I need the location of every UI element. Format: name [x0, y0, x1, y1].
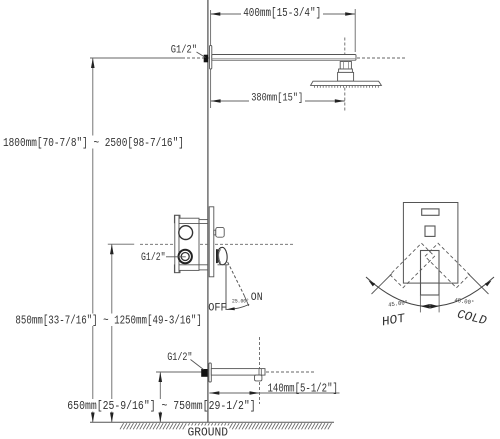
text GROUND: [186, 426, 230, 439]
lever OFF position line: [225, 265, 227, 310]
svg-text:380mm[15"]: 380mm[15"]: [251, 92, 303, 104]
valve bracket: [174, 215, 199, 272]
svg-text:25.00°: 25.00°: [232, 298, 249, 304]
plate slot: [422, 209, 439, 215]
ground line: [90, 421, 334, 423]
valve lower circle inner: [181, 253, 189, 261]
svg-text:GROUND: GROUND: [188, 426, 229, 439]
text 1800mm label: [2, 136, 185, 151]
leader G1/2 top: [197, 52, 206, 58]
svg-text:G1/2": G1/2": [167, 351, 192, 363]
wall line: [207, 0, 209, 422]
angle extension diagonal right: [468, 274, 489, 295]
plate square button: [425, 226, 435, 236]
lever base bottom line: [218, 264, 229, 266]
angle extension diagonal left: [372, 274, 393, 295]
svg-text:140mm[5-1/2"]: 140mm[5-1/2"]: [268, 382, 338, 396]
svg-text:650mm[25-9/16"] ~ 750mm[29-1/2: 650mm[25-9/16"] ~ 750mm[29-1/2"]: [67, 400, 255, 413]
arrow down dim2: [110, 413, 114, 423]
svg-text:400mm[15-3/4"]: 400mm[15-3/4"]: [243, 7, 321, 20]
ground hatching: [120, 423, 332, 429]
extension line spout end vertical (dashed): [259, 337, 261, 404]
dimension 140mm: [209, 392, 339, 394]
angle arc 25deg: [227, 304, 250, 309]
svg-text:OFF: OFF: [208, 302, 226, 314]
G1/2 connector top (black square): [204, 55, 209, 63]
handle front: [421, 251, 440, 296]
arrow up dim2: [110, 244, 114, 254]
arc arrowheads: [369, 281, 376, 287]
arrow up dim3: [159, 372, 163, 382]
lever ON position (dashed): [228, 262, 244, 295]
valve lower circle outer: [179, 250, 192, 263]
shower head ball nut: [338, 62, 354, 82]
arrow down dim1: [91, 413, 95, 423]
svg-text:G1/2": G1/2": [171, 43, 197, 55]
lever base: [216, 249, 218, 263]
swing arc: [366, 277, 494, 307]
centerline shower head vertical (dashed): [344, 38, 346, 113]
tub spout outlet: [255, 375, 262, 381]
centerline arm (dashed): [182, 57, 405, 59]
dimension 400mm top: [210, 9, 355, 52]
leader G1/2 bottom: [191, 360, 204, 370]
svg-text:ON: ON: [251, 292, 263, 305]
svg-text:G1/2": G1/2": [141, 251, 166, 263]
arrow down dim3: [159, 413, 163, 423]
dimension 380mm: [211, 64, 345, 108]
shower arm flange: [210, 46, 212, 70]
shower head plate: [311, 81, 382, 85]
shower arm: [212, 55, 356, 61]
handle rotated left (dashed): [390, 243, 435, 288]
trim plate: [403, 203, 458, 284]
dimension line 1800-2500 vertical: [90, 58, 182, 423]
tub spout body: [211, 369, 265, 376]
shower head nozzles: [315, 86, 379, 88]
diverter knob stem: [214, 230, 216, 235]
dimension line 850-1250 vertical: [108, 244, 134, 422]
handle rotated right (dashed): [425, 243, 470, 288]
centerline spout (dashed): [201, 371, 315, 373]
valve upper circle: [179, 226, 193, 240]
valve body: [179, 218, 199, 270]
tub spout flange: [209, 363, 211, 382]
arrow up dim1: [91, 58, 95, 68]
handle extension lines: [419, 295, 421, 312]
leader G1/2 middle: [166, 256, 186, 258]
text 650mm label: [66, 399, 258, 413]
diverter knob: [216, 227, 224, 237]
G1/2 connector bottom (black square): [201, 369, 208, 377]
escutcheon plate: [209, 207, 214, 277]
centerline valve (dashed): [140, 243, 293, 245]
text 850mm label: [14, 314, 203, 328]
dimension line 650-750 vertical: [156, 372, 208, 423]
svg-text:850mm[33-7/16"] ~ 1250mm[49-3/: 850mm[33-7/16"] ~ 1250mm[49-3/16"]: [15, 314, 201, 327]
lever knob egg: [218, 247, 227, 264]
svg-text:1800mm[70-7/8"] ~ 2500[98-7/16: 1800mm[70-7/8"] ~ 2500[98-7/16"]: [3, 137, 184, 150]
